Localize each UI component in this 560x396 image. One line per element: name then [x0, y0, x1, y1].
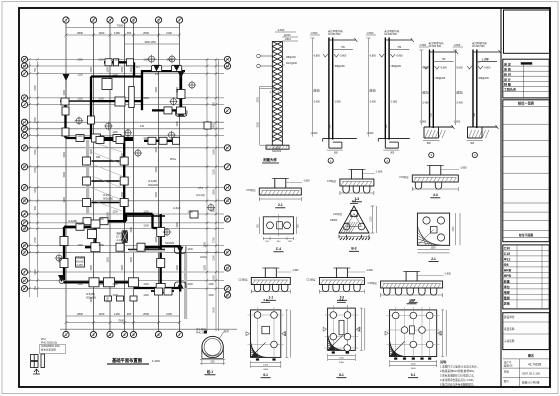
svg-text:1200: 1200: [208, 294, 214, 297]
svg-text:JL6(2): JL6(2): [173, 206, 180, 210]
svg-text:-2.100: -2.100: [116, 239, 123, 242]
svg-text:C40承台: C40承台: [333, 212, 343, 216]
datum triangle lower-left: [58, 275, 65, 282]
svg-text:L: L: [23, 72, 25, 76]
svg-text:-1.900: -1.900: [419, 121, 426, 124]
svg-text:-0.800: -0.800: [456, 67, 463, 70]
pile plus-circle symbols: [55, 55, 215, 262]
title block empty box: [504, 10, 550, 53]
svg-text:1800: 1800: [257, 122, 260, 128]
svg-text:1200: 1200: [208, 283, 214, 286]
svg-text:5: 5: [132, 333, 134, 337]
svg-text:C: C: [23, 186, 26, 190]
detail C-4 bottom dims: [263, 238, 293, 240]
svg-text:图号: 图号: [504, 379, 510, 383]
square pile cap 2-1 bottom dims: [417, 248, 449, 250]
wall section detail 1 wall double line: [328, 38, 330, 139]
detail C-4 inner circle left: [267, 222, 274, 229]
footing section 5-5 hatch marks: [382, 284, 441, 289]
wall horizontal y101: [91, 100, 143, 102]
svg-text:工程负责: 工程负责: [504, 87, 516, 92]
pile detail inner hatch arcs: [205, 353, 220, 356]
svg-text:1800: 1800: [213, 189, 216, 195]
wall lower-left room top edge: [64, 226, 95, 228]
svg-text:1450: 1450: [114, 312, 120, 316]
pile cap plan 9-1 mid-axis open triangles: [385, 331, 389, 335]
svg-text:1200: 1200: [98, 59, 104, 62]
svg-text:8-1: 8-1: [339, 373, 344, 377]
square pile cap 2-1 diag line: [417, 230, 433, 246]
wall bottom edge upper-left room: [66, 137, 134, 139]
svg-text:4: 4: [123, 18, 125, 22]
footing section 3-3 hatch marks: [341, 182, 372, 187]
square pile cap 2-1 center square: [431, 227, 438, 234]
svg-text:1500 1350: 1500 1350: [144, 41, 156, 44]
right grid bubbles column: [224, 56, 230, 298]
svg-text:1500: 1500: [213, 149, 216, 155]
footing section 3-3 stem: [351, 170, 362, 180]
wall vertical x152.5: [151, 214, 153, 228]
svg-text:1200: 1200: [187, 283, 193, 286]
svg-text:1500: 1500: [90, 265, 93, 271]
svg-text:-2.400: -2.400: [313, 100, 320, 103]
svg-text:1.本图尺寸以毫米计,标高以米计。: 1.本图尺寸以毫米计,标高以米计。: [440, 365, 479, 369]
title block signature table rows: [503, 65, 549, 98]
svg-text:2100: 2100: [34, 85, 37, 91]
wall lower vertical x126 stub: [125, 215, 127, 221]
footing section 5-5 base slab: [381, 281, 443, 288]
wall section detail 4 number bubble: [472, 152, 477, 157]
svg-text:电梯井: 电梯井: [116, 231, 124, 235]
svg-text:Q: Q: [23, 227, 26, 231]
svg-text:1200: 1200: [263, 364, 269, 366]
svg-text:2000: 2000: [213, 307, 216, 313]
wall vertical x142: [141, 70, 143, 110]
svg-text:-1.800: -1.800: [460, 167, 467, 170]
triangular pile cap inner tie lines: [347, 214, 362, 227]
svg-text:6: 6: [157, 18, 159, 22]
svg-text:-1.900: -1.900: [453, 121, 460, 124]
wall section detail 3 upper ledge line: [433, 60, 453, 62]
svg-text:2100: 2100: [166, 312, 172, 316]
pile cap plan 9-1 center slot: [410, 326, 415, 334]
footing section 2-2 base slab: [319, 278, 364, 285]
wall lower-right room right edge: [179, 246, 181, 292]
svg-text:桩-1: 桩-1: [206, 369, 213, 374]
svg-text:3.承台及地梁砼C30,垫层C15。: 3.承台及地梁砼C30,垫层C15。: [440, 374, 476, 378]
wall section detail 1 level V marks: [323, 54, 328, 57]
left dimension texts rotated: [34, 67, 37, 290]
svg-text:DZ1: DZ1: [96, 156, 101, 159]
svg-text:1500: 1500: [130, 227, 133, 233]
svg-text:审 定: 审 定: [504, 61, 511, 66]
svg-text:1500: 1500: [90, 112, 93, 118]
wall lower bottom edge mid part: [134, 287, 161, 289]
svg-text:4: 4: [123, 333, 125, 337]
mid dimension line y44: [125, 43, 180, 45]
svg-text:CT1: CT1: [198, 186, 203, 190]
wall section detail 2 top slab line: [385, 39, 412, 41]
wall section detail 2 level V marks: [379, 54, 384, 57]
scattered horizontal micro labels: [77, 59, 214, 297]
wall section detail 4 level V marks: [467, 66, 472, 69]
triangular pile cap center rect: [351, 211, 358, 217]
svg-text:-0.800: -0.800: [440, 67, 447, 70]
svg-text:3-3: 3-3: [352, 199, 356, 203]
svg-text:1500: 1500: [430, 247, 436, 249]
bottom long grid closure line: [60, 328, 237, 330]
svg-text:750: 750: [34, 67, 37, 72]
svg-text:桩位平面图: 桩位平面图: [519, 233, 533, 237]
svg-text:-0.800: -0.800: [339, 55, 346, 58]
svg-text:建设单位: 建设单位: [504, 315, 515, 319]
wall upper-left room left edge: [64, 101, 66, 138]
wall lower-right room bottom edge: [161, 287, 181, 289]
svg-text:HRB: HRB: [504, 268, 512, 272]
svg-text:1500: 1500: [155, 237, 158, 243]
svg-text:2400: 2400: [263, 369, 269, 371]
triangular pile cap bottom-right circle: [358, 223, 365, 230]
svg-text:1500: 1500: [121, 67, 124, 73]
svg-text:1500: 1500: [121, 192, 124, 198]
wall connector vertical x124.2: [123, 140, 125, 222]
svg-text:1: 1: [65, 333, 67, 337]
title block material table left entries: [503, 246, 512, 305]
svg-text:-0.800: -0.800: [484, 67, 491, 70]
pile cap plan 6-1 center square: [262, 326, 270, 334]
svg-text:4-4: 4-4: [433, 193, 438, 197]
wall section detail 2 wall double line: [384, 38, 386, 139]
pile cap plan 9-1 right dim lines: [442, 310, 444, 357]
svg-text:1200: 1200: [77, 135, 83, 138]
svg-text:1500: 1500: [155, 147, 158, 153]
svg-text:7: 7: [178, 333, 180, 337]
svg-text:C15: C15: [504, 252, 510, 256]
gray stair diagonal leaders upper connector: [92, 142, 122, 211]
svg-text:1200: 1200: [143, 283, 149, 286]
svg-text:1200: 1200: [98, 283, 104, 286]
svg-text:H: H: [23, 121, 26, 125]
svg-text:1500: 1500: [176, 121, 179, 127]
svg-text:-1.800: -1.800: [292, 269, 299, 272]
svg-text:8-8: 8-8: [411, 298, 416, 302]
square pile cap 2-1 right dims: [454, 213, 456, 245]
top dimension line 7500: [66, 27, 180, 29]
detail C-4 center line: [278, 215, 280, 237]
svg-text:(坡道): (坡道): [313, 88, 320, 92]
svg-text:2100: 2100: [34, 269, 37, 275]
wall section detail 3 number bubble: [429, 152, 434, 157]
pile cap plan 9-1 bottom dim lines: [390, 361, 437, 363]
detail C-4 right dims: [296, 217, 298, 234]
svg-text:1500: 1500: [90, 202, 93, 208]
svg-text:1:100: 1:100: [152, 359, 160, 363]
svg-text:1200: 1200: [143, 294, 149, 297]
svg-text:1200: 1200: [77, 98, 83, 101]
svg-text:J: J: [227, 165, 229, 169]
section cut triangle lower-right bottom: [177, 282, 184, 289]
hatched retaining wall detail: [272, 42, 282, 146]
pile cap plan 6-1 bottom dim lines: [251, 361, 281, 363]
section triangles inside top capitals: [154, 65, 160, 71]
svg-text:2800: 2800: [77, 312, 83, 316]
svg-text:7-7: 7-7: [339, 298, 344, 302]
svg-text:Φ8: Φ8: [504, 263, 509, 267]
svg-text:900: 900: [34, 205, 37, 210]
svg-text:1500: 1500: [176, 87, 179, 93]
square pile cap 2-1 outline: [417, 213, 449, 245]
svg-text:2400: 2400: [411, 368, 417, 370]
section cut triangle upper-right: [178, 71, 185, 78]
svg-text:7: 7: [178, 18, 180, 22]
section triangle at right room wall bottom: [178, 109, 185, 116]
svg-text:-1.800: -1.800: [366, 269, 373, 272]
hatched wall bottom slab: [266, 145, 289, 149]
svg-text:1200: 1200: [143, 211, 149, 214]
svg-text:1500: 1500: [63, 152, 66, 158]
svg-text:1500: 1500: [34, 149, 37, 155]
svg-text:3Φ500: 3Φ500: [330, 219, 338, 222]
svg-text:300x600: 300x600: [272, 150, 282, 153]
gray band under y249 line: [129, 250, 165, 253]
svg-text:1450: 1450: [114, 31, 120, 35]
left grid bubbles column: [21, 56, 27, 291]
svg-text:2.桩基采用PHC管桩,桩径500。: 2.桩基采用PHC管桩,桩径500。: [440, 369, 476, 373]
svg-text:1200: 1200: [112, 74, 118, 77]
wall section detail 2 number bubble: [385, 158, 390, 163]
wall vertical x95.4: [94, 221, 96, 247]
svg-text:1200: 1200: [98, 98, 104, 101]
svg-text:1200: 1200: [112, 294, 118, 297]
svg-text:1600: 1600: [99, 31, 105, 35]
svg-text:桩位一览表: 桩位一览表: [517, 100, 535, 105]
svg-text:2400: 2400: [339, 362, 345, 364]
svg-text:桩顶: 桩顶: [224, 329, 229, 333]
pile detail bottom dim lines: [200, 359, 225, 361]
svg-text:Φ8@200: Φ8@200: [286, 56, 296, 59]
footing section 4-4 base slab: [412, 175, 458, 182]
wall section detail 2 dimension line: [368, 38, 370, 137]
svg-text:C15垫层: C15垫层: [368, 281, 378, 285]
svg-text:-0.800: -0.800: [313, 55, 320, 58]
pile cap plan 9-1 bottom tick blobs: [394, 358, 431, 360]
pile cap plan 8-1 mid-axis open triangles: [323, 327, 327, 331]
title block pile table header: [503, 100, 549, 242]
svg-text:1500: 1500: [155, 192, 158, 198]
wall horizontal y213.8: [124, 213, 152, 215]
pile detail top leader: [219, 332, 224, 340]
wall bottom stub y291: [151, 290, 174, 292]
svg-text:ZH2a: ZH2a: [170, 158, 177, 161]
footing section 1-1 pile bumps: [254, 285, 288, 292]
wall section detail 1 dimension line: [312, 38, 314, 137]
svg-text:3700: 3700: [257, 97, 260, 103]
wall right room vertical x181: [180, 69, 182, 111]
svg-text:2-1: 2-1: [278, 203, 283, 207]
svg-text:1200: 1200: [143, 137, 149, 140]
svg-text:JL5(2B): JL5(2B): [86, 292, 95, 296]
svg-text:JL8(2): JL8(2): [200, 256, 207, 259]
svg-text:-0.800: -0.800: [369, 55, 376, 58]
svg-text:2: 2: [92, 18, 94, 22]
wall lower horizontal y216: [126, 215, 165, 217]
svg-text:2550: 2550: [34, 117, 37, 123]
wall vertical x91: [90, 77, 92, 139]
pile cap plan 9-1 axis lines: [387, 307, 440, 360]
title block signature table header bar: [521, 62, 532, 64]
triangular pile cap right dim: [372, 206, 374, 233]
svg-text:桩基: 桩基: [503, 278, 511, 283]
title block material table: [503, 245, 549, 309]
footing section 3-3 base slab: [340, 179, 374, 186]
svg-text:-0.500: -0.500: [311, 32, 318, 35]
gray wall band lower right: [184, 253, 187, 319]
footing section 3-3 pile bumps: [343, 186, 370, 193]
title block project box: [503, 313, 549, 350]
svg-text:1200: 1200: [77, 74, 83, 77]
svg-text:±0.000 500: ±0.000 500: [429, 45, 442, 48]
capital outline at right room wall bottom: [176, 110, 187, 116]
pile detail side verticals: [201, 347, 203, 358]
svg-text:图名: 图名: [528, 353, 534, 358]
svg-text:结施-05: 结施-05: [504, 364, 513, 368]
svg-text:2Φ12: 2Φ12: [285, 38, 292, 41]
pile cap plan 6-1 bottom tick blobs: [256, 358, 276, 360]
svg-text:1200: 1200: [187, 211, 193, 214]
svg-text:4.未注明承台面标高为-1.500。: 4.未注明承台面标高为-1.500。: [440, 378, 475, 382]
triangular pile cap outline: [339, 206, 369, 233]
svg-text:1200: 1200: [143, 59, 149, 62]
svg-text:1500: 1500: [107, 67, 110, 73]
svg-text:41.70628: 41.70628: [528, 363, 542, 367]
column capital U shapes: [152, 65, 182, 71]
svg-text:-0.800: -0.800: [422, 67, 429, 70]
footing section 2-2 stem: [336, 268, 347, 278]
svg-text:2400: 2400: [213, 123, 216, 129]
svg-text:桩长详见说明: 桩长详见说明: [41, 348, 57, 352]
svg-text:1500: 1500: [204, 242, 207, 248]
svg-text:750: 750: [34, 285, 37, 290]
footing section 2-1 base slab: [259, 188, 301, 195]
svg-text:ZJ2: ZJ2: [140, 125, 145, 128]
pile cap plan 8-1 bottom tick blobs: [332, 351, 349, 353]
pile cap plan 6-1 mid-axis open triangles: [246, 332, 250, 336]
wall section detail 4 footing: [468, 126, 498, 128]
capital outline at lower-right wall bottom: [175, 282, 186, 288]
svg-text:(坡道): (坡道): [422, 91, 429, 95]
svg-text:L: L: [226, 109, 228, 113]
svg-text:1500: 1500: [107, 297, 110, 303]
scattered micro dimension labels in plan: [63, 65, 207, 303]
svg-text:N: N: [226, 58, 229, 62]
svg-text:2500: 2500: [143, 31, 149, 35]
wall upper-left room top edge: [60, 100, 91, 102]
hatched wall bottom texts: [272, 147, 282, 154]
svg-text:剖面大样: 剖面大样: [263, 157, 277, 162]
hatched wall mid tick line: [260, 88, 283, 90]
hatched wall top annotations: [277, 28, 292, 41]
footing section 1-1 stem: [265, 268, 276, 278]
svg-text:Φ12: Φ12: [504, 257, 511, 261]
svg-text:-0.500: -0.500: [453, 44, 460, 47]
svg-text:1200: 1200: [213, 255, 216, 261]
right dimension chain ticks: [206, 58, 218, 290]
svg-text:-0.500: -0.500: [419, 44, 426, 47]
svg-text:1200: 1200: [143, 248, 149, 251]
svg-text:-1.900: -1.900: [311, 132, 318, 135]
svg-text:2007.05 1:100: 2007.05 1:100: [522, 372, 540, 376]
pile detail leader text: [204, 331, 207, 334]
svg-text:1500: 1500: [121, 265, 124, 271]
svg-text:1200: 1200: [77, 59, 83, 62]
footing section 5-5 stem: [406, 272, 417, 282]
svg-text:900: 900: [213, 101, 216, 106]
wall horizontal y247 mid wing: [140, 246, 161, 248]
wall connector horizontal y140.8 right: [144, 140, 176, 142]
pile cap plan 8-1 center slot: [339, 320, 344, 335]
wall section detail 4 upper ledge line: [477, 60, 497, 62]
svg-text:2-1: 2-1: [431, 257, 436, 261]
svg-text:D: D: [226, 266, 229, 270]
svg-text:1200: 1200: [339, 357, 345, 359]
pile cap plan 9-1 outline: [390, 310, 437, 357]
footing section 2-1 bottom dims: [259, 198, 301, 200]
svg-text:JL7: JL7: [136, 66, 141, 69]
svg-text:2700: 2700: [34, 237, 37, 243]
svg-text:2700: 2700: [213, 237, 216, 243]
svg-text:-1.800: -1.800: [303, 180, 310, 183]
svg-text:Φ8@200: Φ8@200: [391, 65, 401, 68]
section cut triangle lower-right top: [177, 247, 184, 254]
footing section 4-4 pile bumps: [415, 182, 441, 189]
wall mid horizontal y76.5: [91, 75, 143, 77]
svg-text:1500: 1500: [107, 257, 110, 263]
svg-text:1800: 1800: [34, 187, 37, 193]
footing section 4-4 bottom dims: [412, 188, 458, 190]
pile cap plan 8-1 bottom dim lines: [328, 354, 356, 356]
wall section detail 4 top slab line: [473, 51, 500, 53]
svg-text:HPB: HPB: [504, 274, 512, 278]
svg-text:1200: 1200: [411, 364, 417, 366]
svg-text:7500: 7500: [117, 24, 124, 28]
svg-text:子项名称: 子项名称: [504, 339, 515, 343]
svg-text:-0.800: -0.800: [396, 55, 403, 58]
svg-text:2100: 2100: [371, 216, 373, 222]
svg-text:其他: 其他: [503, 300, 510, 305]
wall lower-left room left edge: [63, 227, 65, 280]
svg-text:1500: 1500: [213, 275, 216, 281]
svg-text:R: R: [23, 244, 26, 248]
wall section detail 3 top slab line: [430, 51, 457, 53]
wall horizontal y228 stub: [153, 227, 161, 229]
svg-text:-0.500: -0.500: [367, 32, 374, 35]
svg-text:H: H: [226, 186, 229, 190]
wall section detail 1 number bubble: [328, 158, 333, 163]
pile cap plan 8-1 dark hatch wedge lower-left: [328, 334, 345, 350]
footing section 3-3 bottom dims: [340, 192, 374, 194]
wall upper top edge: [104, 61, 134, 63]
svg-text:@200: @200: [284, 34, 291, 37]
footing section 5-5 pile bumps: [384, 288, 437, 295]
pile cap plan 9-1 pile circles: [392, 312, 433, 348]
svg-text:1200: 1200: [112, 131, 118, 134]
svg-text:C-4: C-4: [276, 247, 281, 251]
wall section detail 1 top slab line: [329, 39, 356, 41]
bottom grid bubbles row: [63, 331, 183, 337]
plan horizontal grid lines: [28, 59, 224, 288]
svg-text:2400: 2400: [359, 326, 361, 332]
svg-text:1200: 1200: [143, 225, 149, 228]
